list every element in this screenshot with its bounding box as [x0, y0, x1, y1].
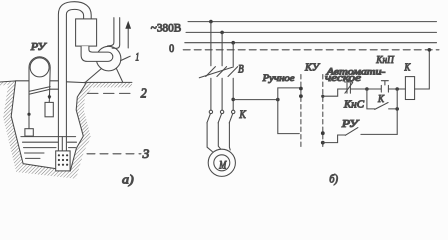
PU contact wire in: [323, 135, 346, 143]
svg-text:б): б): [329, 172, 338, 186]
coil right wire to neutral: [415, 50, 430, 89]
KnS wire out: [350, 88, 367, 90]
foundation top line: [84, 81, 132, 83]
suction pipe inverted-U (inner wall): [66, 9, 83, 151]
pump inlet pipe elbow with rounded cap: [81, 46, 113, 61]
wires switch to contactor: [211, 78, 233, 110]
node dot phase A: [209, 20, 213, 24]
K holding contact out: [389, 108, 398, 110]
pump volute circle 1: [96, 46, 121, 71]
K holding contact branch: [367, 89, 375, 109]
ground line right of pipe: [67, 81, 85, 84]
svg-text:КнП: КнП: [375, 55, 395, 66]
phase line L2: [186, 31, 437, 33]
dot on float rope: [27, 113, 30, 116]
water surface line: [21, 136, 76, 138]
start button KnP wire: [367, 88, 381, 90]
float: [25, 129, 33, 136]
motor box U1: [76, 19, 97, 46]
KnP actuator T: [381, 81, 388, 85]
PU rope over pulley: [29, 57, 50, 129]
svg-text:В: В: [238, 61, 244, 75]
wires contactor to motor: [207, 123, 230, 152]
svg-text:ческое: ческое: [325, 73, 362, 84]
water shading lines: [23, 142, 77, 158]
KnP wire out: [388, 88, 397, 90]
contactor K main contacts: [209, 110, 212, 113]
leader dashes to label 3: [87, 153, 141, 155]
suction pipe inverted-U over pit edge (outer wall): [58, 2, 91, 151]
KnS contact plates: [347, 83, 350, 93]
svg-text:РУ: РУ: [341, 119, 360, 130]
rope to counterweight: [48, 100, 50, 103]
wire manual lower branch: [278, 100, 300, 134]
strainer holes: [58, 154, 68, 166]
svg-text:РУ: РУ: [30, 41, 48, 53]
foundation hatch under pump: [84, 82, 132, 87]
node after KnS: [365, 87, 369, 91]
KnP contact plates: [381, 85, 388, 92]
svg-text:КнС: КнС: [343, 100, 365, 111]
pump discharge neck elbow: [108, 18, 114, 46]
node tap to control circuit: [231, 98, 235, 102]
KU position line manual: [300, 75, 302, 148]
level switch PU pulley: [30, 58, 49, 77]
svg-text:К: К: [404, 63, 412, 74]
pump stand legs: [86, 68, 123, 82]
pipe middle line in well: [61, 137, 63, 151]
coil K: [405, 77, 414, 100]
svg-text:1: 1: [135, 49, 139, 63]
leader dashes to label 2: [88, 92, 133, 94]
pit inner edge outline: [0, 81, 86, 171]
svg-text:0: 0: [169, 43, 174, 55]
KU manual contact dots: [299, 87, 303, 91]
phase line L3: [185, 42, 437, 44]
svg-text:К: К: [377, 93, 384, 105]
K holding contact blade: [375, 103, 388, 110]
KnS actuator T: [345, 79, 353, 82]
svg-text:М: М: [218, 157, 227, 171]
node dot phase B: [220, 31, 224, 35]
bus node lower: [395, 107, 399, 111]
motor M: [208, 149, 235, 176]
flow arrow up: [127, 27, 129, 48]
neutral dashed line 0: [183, 49, 439, 51]
knife switch V blades: [206, 67, 238, 77]
svg-text:2: 2: [141, 85, 147, 100]
counterweight: [45, 102, 53, 116]
right bus vertical: [396, 89, 398, 134]
wire to manual circuit: [233, 99, 278, 101]
svg-text:~380В: ~380В: [151, 20, 181, 34]
pit hatched walls (а): [0, 81, 92, 179]
coil left wire: [397, 88, 405, 90]
svg-text:К: К: [239, 107, 247, 121]
node dot phase C: [231, 41, 235, 45]
lever rod to pipe: [50, 88, 58, 90]
phase line L1: [188, 21, 437, 23]
svg-text:а): а): [122, 172, 134, 186]
stop button KnS wire in: [323, 89, 347, 96]
KU position line auto: [322, 75, 324, 148]
bus node upper: [395, 87, 399, 91]
svg-text:Ручное: Ручное: [261, 74, 294, 84]
ground slab line over pit left: [16, 80, 59, 82]
PU contact blade: [345, 128, 358, 136]
strainer box: [56, 151, 70, 171]
knife switch gang bar: [199, 67, 233, 78]
KU auto contact dots: [321, 95, 324, 98]
rope bead diamond: [48, 94, 52, 100]
node on neutral: [428, 48, 432, 52]
wire taps to switch: [211, 22, 233, 66]
wire manual upper branch: [278, 88, 301, 100]
KnS bridge slant: [345, 83, 353, 93]
PU switch lever lines: [29, 87, 50, 95]
leader line to label 1: [121, 56, 131, 60]
node manual branch: [276, 98, 280, 102]
svg-text:3: 3: [142, 146, 150, 161]
PU contact wire out: [361, 133, 397, 135]
svg-text:КУ: КУ: [304, 61, 320, 73]
